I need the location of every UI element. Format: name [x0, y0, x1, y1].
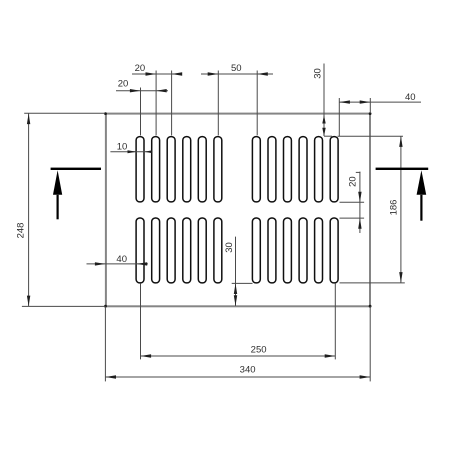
ext line 248 bottom	[22, 305, 105, 307]
dim line 50	[201, 73, 273, 75]
dim line 20 right vertical	[359, 172, 361, 233]
dim line 186 vertical	[400, 136, 402, 282]
ext line 250 left	[140, 283, 142, 359]
svg-text:20: 20	[135, 63, 146, 74]
svg-text:40: 40	[405, 92, 416, 103]
dim line 40 bottom-left	[87, 263, 149, 265]
plate corner dot top-left	[104, 112, 107, 115]
ext line right slot1 center top	[256, 71, 258, 136]
slots bottom-left group	[136, 218, 222, 283]
ext line slot3 center top	[171, 71, 173, 136]
arrow 186 down	[399, 272, 402, 283]
plate outline	[106, 114, 370, 307]
arrow 50 left (outside, points right)	[208, 72, 219, 75]
svg-text:50: 50	[231, 63, 242, 74]
ext line 30 bottom slot level	[232, 282, 253, 284]
arrow 10 right (outside, points left)	[144, 150, 152, 153]
svg-text:30: 30	[313, 68, 324, 79]
arrow 30 bottom up	[234, 283, 237, 294]
arrow 30 top down (inside, points down at slot top)	[322, 128, 325, 137]
ext line 40 top left	[338, 98, 340, 136]
svg-text:248: 248	[16, 223, 27, 239]
svg-text:250: 250	[251, 345, 267, 356]
dim line 250	[141, 355, 336, 357]
ext line 186 bottom	[340, 282, 405, 284]
arrow 340 left	[105, 375, 116, 378]
dim line 10	[110, 151, 152, 153]
arrow 40 top left (inside, points left)	[339, 100, 350, 103]
arrow 20 right down (outside, points down)	[358, 192, 361, 203]
plate corner dot bottom-right	[369, 305, 372, 308]
ext line 340 left	[104, 306, 106, 381]
ext line 20 right lower	[340, 217, 365, 219]
support symbol left: bar	[51, 168, 101, 170]
ext line slot-top right long (186 top ref)	[338, 135, 404, 137]
arrow 40bl right (outside, points left at slot1 left)	[137, 262, 148, 265]
arrow 250 left	[141, 354, 152, 357]
plate corner dot bottom-left	[104, 305, 107, 308]
arrow 340 right	[360, 375, 371, 378]
support symbol left: solid arrow	[53, 170, 62, 195]
arrow 20 lower right (outside, points left at slot2 center)	[156, 89, 167, 92]
arrow 20 right up (outside, points up)	[358, 218, 361, 229]
ext line 40 top right (plate corner)	[369, 98, 371, 113]
plate corner dot top-right	[369, 112, 372, 115]
tick 20 right top	[356, 171, 361, 173]
arrow 248 up	[27, 114, 30, 125]
arrow 250 right	[325, 354, 336, 357]
dim line 30 top vertical	[323, 64, 325, 137]
svg-text:10: 10	[117, 142, 128, 153]
ext line slot1 center top	[140, 88, 142, 136]
dim line 20 lower	[116, 90, 168, 92]
dim line 40 top	[339, 101, 421, 103]
ext line 248 top	[24, 112, 105, 114]
arrow 20 lower left (outside, points right at slot1 center)	[130, 89, 141, 92]
slots top-left group	[136, 137, 222, 202]
arrow 186 up	[399, 136, 402, 147]
dim line 30 bottom vertical	[235, 237, 237, 306]
dim line 248 vertical	[28, 114, 30, 307]
slots top-right group	[252, 137, 338, 202]
dim line 20 upper	[132, 73, 182, 75]
arrow 248 down	[27, 296, 30, 307]
svg-text:186: 186	[388, 200, 399, 216]
ext line slot6 center top	[217, 71, 219, 136]
arrow 40bl left (outside, points right at plate edge)	[95, 262, 106, 265]
dim line 340	[105, 376, 370, 378]
arrow 10 left (outside, points right)	[128, 150, 137, 153]
arrow 50 right (outside, points left)	[257, 72, 268, 75]
ext line 20 right upper	[340, 201, 365, 203]
ext line 340 right	[369, 306, 371, 381]
arrow 20 upper left (outside, points right at slot2 center)	[146, 72, 157, 75]
support symbol right: solid arrow	[417, 170, 427, 195]
ext line 250 right	[334, 283, 336, 359]
slots bottom-right group	[252, 218, 338, 283]
support symbol right: bar	[376, 168, 429, 170]
svg-text:30: 30	[224, 242, 235, 253]
arrow 40 top right (inside, points right)	[360, 100, 371, 103]
svg-text:40: 40	[116, 254, 127, 265]
svg-text:20: 20	[347, 176, 358, 187]
ext line slot2 center top	[155, 71, 157, 136]
arrow 20 upper right (outside, points left at slot3 center)	[172, 72, 183, 75]
ext line slot-top between slot5 and slot6	[324, 135, 332, 137]
svg-text:340: 340	[240, 365, 256, 376]
arrow 30 bottom down	[234, 295, 237, 306]
arrow 30 top up (inside, points up at plate top)	[322, 115, 325, 124]
svg-text:20: 20	[118, 79, 129, 90]
